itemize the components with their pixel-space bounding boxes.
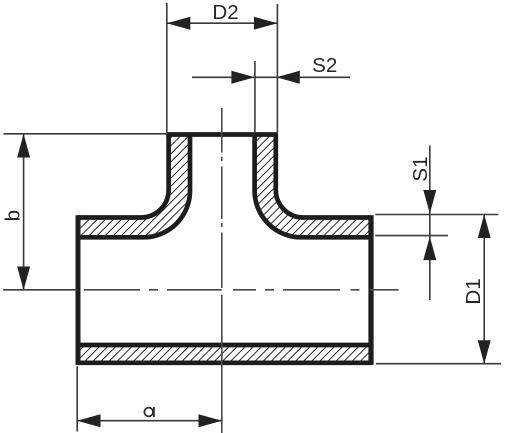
D2 right extension line — [276, 4, 278, 132]
D2 left extension line — [166, 3, 168, 132]
hatch section right wall (branch right wall + run top-right wall) — [255, 135, 371, 238]
branch top end face edge — [166, 132, 278, 137]
a left extension line — [76, 366, 78, 431]
run horizontal centerline — [84, 289, 399, 291]
a label (single-storey CAD style a: bowl + right stem) — [144, 408, 153, 417]
S1 arrow up (tip on lower line) — [423, 237, 436, 261]
D1 arrow down — [478, 340, 491, 364]
a dimension line — [77, 420, 222, 422]
D2 arrow left — [167, 17, 191, 30]
hatch section left wall (branch left wall + run top-left wall) — [78, 135, 190, 238]
b bottom extension line — [3, 289, 78, 291]
svg-text:D2: D2 — [212, 1, 238, 24]
b top extension line — [4, 133, 167, 135]
D1 bottom extension line — [376, 363, 501, 365]
D2 dimension line — [167, 22, 278, 24]
branch right outer wall + outer fillet + run top-right outer edge — [276, 135, 371, 218]
branch left outer wall + outer fillet + run top-left outer edge — [78, 135, 169, 218]
b dimension line — [23, 134, 25, 290]
S1 dimension line — [429, 146, 431, 301]
D1 arrow up — [478, 215, 491, 239]
hatch section bottom wall of run — [78, 345, 371, 363]
b arrow down — [17, 267, 30, 291]
S1 arrow down (tip on upper line) — [423, 190, 436, 214]
S2 dimension line — [192, 76, 350, 78]
svg-text:S1: S1 — [409, 156, 432, 181]
S1 lower extension line — [375, 235, 448, 237]
svg-text:S2: S2 — [312, 54, 337, 77]
S2 inner extension line — [254, 61, 256, 132]
b arrow up — [17, 134, 30, 158]
run left end face edge — [76, 215, 81, 365]
a arrow right — [199, 414, 223, 427]
run bottom inner edge — [78, 343, 371, 348]
a arrow left — [77, 414, 101, 427]
branch vertical centerline — [221, 108, 223, 433]
svg-text:D1: D1 — [462, 278, 485, 304]
branch right inner wall + inner fillet + run top-right inner edge — [255, 135, 371, 238]
D1 dimension line — [483, 215, 485, 364]
S1 upper extension line — [375, 214, 498, 216]
branch left inner wall + inner fillet + run top-left inner edge — [78, 135, 190, 238]
S2 arrow left (pointing right) — [231, 71, 255, 84]
run bottom outer edge — [78, 360, 371, 365]
S2 arrow right (pointing left) — [276, 71, 300, 84]
svg-text:b: b — [2, 210, 25, 221]
D2 arrow right — [254, 17, 278, 30]
run right end face edge — [368, 215, 373, 365]
